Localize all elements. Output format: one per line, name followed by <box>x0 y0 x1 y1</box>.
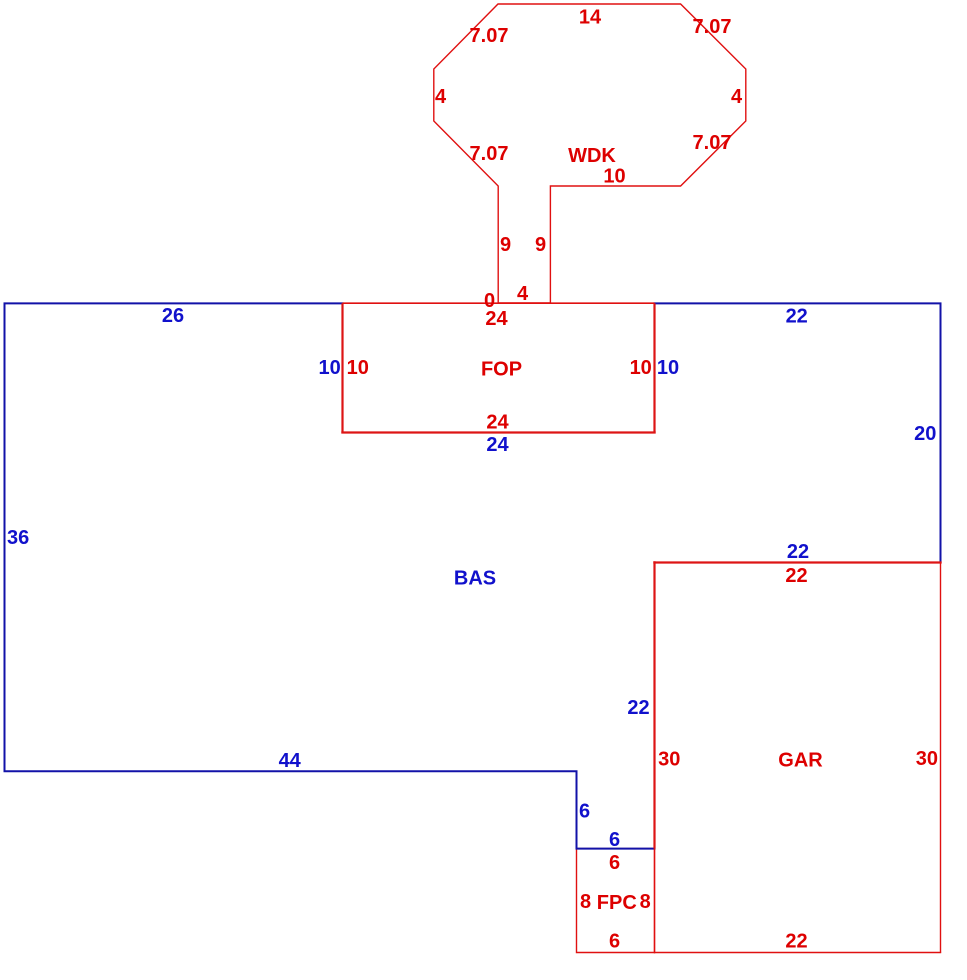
wire FOP bottom edge shared with BAS <box>341 431 655 433</box>
svg-text:44: 44 <box>279 750 302 772</box>
svg-text:4: 4 <box>517 283 529 305</box>
svg-text:30: 30 <box>916 748 938 770</box>
area FPC outline <box>577 849 655 953</box>
svg-text:6: 6 <box>609 852 620 874</box>
svg-text:6: 6 <box>609 829 620 851</box>
wire GAR left edge upper part shared with BAS <box>653 561 655 848</box>
svg-text:7.07: 7.07 <box>693 132 732 154</box>
svg-text:GAR: GAR <box>778 750 823 772</box>
wire FOP top edge <box>343 302 655 304</box>
wire GAR top edge shared with BAS <box>653 561 941 563</box>
svg-text:6: 6 <box>579 801 590 823</box>
wire FOP left edge shared with BAS <box>341 303 343 432</box>
svg-text:30: 30 <box>658 749 680 771</box>
svg-text:9: 9 <box>535 234 546 256</box>
wire GAR bottom edge <box>654 952 941 954</box>
svg-text:24: 24 <box>486 434 509 456</box>
svg-text:BAS: BAS <box>454 568 496 590</box>
svg-text:4: 4 <box>731 86 743 108</box>
wire GAR right edge <box>940 563 942 953</box>
svg-text:10: 10 <box>318 357 340 379</box>
svg-text:22: 22 <box>627 697 649 719</box>
svg-text:6: 6 <box>609 931 620 953</box>
area BAS outline <box>5 303 941 848</box>
svg-text:10: 10 <box>603 166 625 188</box>
svg-text:WDK: WDK <box>568 145 616 167</box>
svg-text:8: 8 <box>640 891 651 913</box>
svg-text:FPC: FPC <box>597 892 637 914</box>
svg-text:22: 22 <box>787 541 809 563</box>
svg-text:7.07: 7.07 <box>693 16 732 38</box>
svg-text:7.07: 7.07 <box>470 25 509 47</box>
svg-text:24: 24 <box>485 308 508 330</box>
svg-text:14: 14 <box>579 7 602 29</box>
wire GAR left edge lower part <box>654 849 656 954</box>
svg-text:36: 36 <box>7 527 29 549</box>
svg-text:20: 20 <box>914 423 936 445</box>
svg-text:4: 4 <box>435 86 447 108</box>
svg-text:24: 24 <box>486 412 509 434</box>
svg-text:22: 22 <box>785 565 807 587</box>
svg-text:10: 10 <box>657 357 679 379</box>
svg-text:8: 8 <box>580 891 591 913</box>
svg-text:22: 22 <box>785 931 807 953</box>
svg-text:10: 10 <box>347 357 369 379</box>
svg-text:FOP: FOP <box>481 359 522 381</box>
svg-text:7.07: 7.07 <box>470 143 509 165</box>
wire FOP right edge shared with BAS <box>653 303 655 432</box>
svg-text:9: 9 <box>500 234 511 256</box>
svg-text:26: 26 <box>162 305 184 327</box>
area WDK outline <box>434 4 746 303</box>
svg-text:10: 10 <box>630 357 652 379</box>
svg-text:22: 22 <box>786 306 808 328</box>
